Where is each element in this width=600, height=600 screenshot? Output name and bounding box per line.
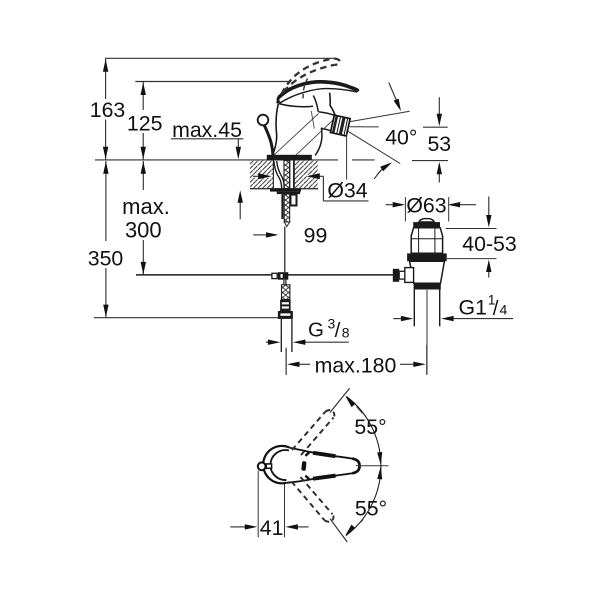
faucet centerline extension (285, 348, 287, 375)
dimension 125 vertical line (127, 82, 163, 160)
dimension 53 (412, 97, 451, 182)
55deg arc (346, 397, 381, 536)
handle rotation arc dashed (303, 79, 307, 100)
svg-text:53: 53 (427, 132, 451, 156)
dimension max.300 vertical line (122, 161, 170, 274)
faucet handle raised dashed (282, 59, 340, 94)
top view handle tick bottom (305, 476, 309, 480)
drain bottom ring (414, 283, 441, 289)
dimension diameter63 (386, 194, 476, 222)
svg-text:125: 125 (127, 112, 163, 136)
centerline double arrow (377, 452, 382, 479)
55deg upper boundary line (330, 388, 350, 412)
svg-text:163: 163 (90, 98, 126, 122)
label 55deg lower (355, 497, 387, 521)
label 40deg (385, 126, 417, 150)
reference line 350 bottom (94, 317, 278, 319)
top view handle groove top (313, 453, 336, 456)
faucet body contour lines (274, 111, 333, 160)
faucet spout outline (315, 112, 334, 156)
svg-text:max.45: max.45 (172, 118, 242, 142)
drain lever boss (405, 268, 414, 283)
drain centerline (426, 290, 428, 375)
drain lever knob (393, 269, 405, 282)
dimension max.45 (171, 118, 243, 220)
mounting bracket tab (291, 195, 297, 206)
deck extension line right (318, 159, 375, 161)
pop-up knob (258, 115, 273, 156)
svg-text:41: 41 (260, 516, 284, 540)
svg-text:Ø34: Ø34 (327, 178, 367, 202)
reference line top (105, 57, 336, 59)
svg-text:/: / (493, 297, 499, 320)
supply hose (281, 319, 292, 352)
deck slab hatched (250, 160, 318, 188)
svg-text:40°: 40° (385, 126, 417, 150)
drain upper body (411, 228, 442, 254)
dimension 99 arrow (253, 223, 327, 247)
threaded shank in hole (284, 161, 294, 189)
55deg lower arrow (345, 520, 363, 536)
svg-text:350: 350 (88, 246, 124, 270)
drain outlet tube (414, 290, 439, 327)
dimension G3/8 (266, 316, 350, 345)
top view dashed handle down (292, 477, 334, 522)
svg-text:max.: max. (122, 194, 170, 219)
label 55deg upper (354, 415, 386, 439)
horizontal linkage bar (136, 274, 393, 276)
drain lower body (410, 261, 445, 283)
leader ray lower 40deg (348, 131, 401, 164)
top view handle (286, 448, 359, 483)
dimension 40-53 (446, 197, 517, 278)
svg-text:8: 8 (342, 324, 350, 340)
faucet neck step (330, 93, 335, 115)
55deg upper arrow (345, 396, 362, 413)
svg-text:G1: G1 (459, 296, 487, 320)
top view body inner arc (270, 450, 289, 480)
faucet body right edge (313, 96, 318, 112)
dimension 40deg upper arrow (389, 83, 401, 112)
svg-text:/: / (335, 319, 341, 342)
top view pop-up knob (258, 462, 272, 470)
drain plug cap (413, 222, 440, 228)
drain flange (407, 253, 447, 261)
dimension G1 1/4 (393, 291, 513, 321)
linkage clamp (272, 272, 288, 280)
svg-text:300: 300 (125, 218, 162, 243)
svg-text:G: G (308, 319, 324, 342)
faucet lever handle (277, 81, 358, 104)
dimension max.180 (286, 345, 427, 377)
leader ray upper 40deg (349, 111, 409, 122)
deck top line (95, 159, 318, 161)
top view body outer arc (263, 446, 289, 483)
dimension 40deg lower arrow (374, 162, 392, 179)
washer and locknut under deck (270, 189, 301, 194)
drain plug knob (419, 219, 434, 222)
pop-up rod curve in hole (274, 161, 284, 189)
svg-text:max.180: max.180 (315, 353, 397, 377)
leader vertical to diameter34 (346, 134, 348, 180)
dimension 41 (230, 471, 308, 541)
dimension 163 vertical line (90, 58, 126, 159)
top view dashed handle up (292, 410, 334, 455)
svg-text:55°: 55° (354, 415, 386, 439)
dimension 350 vertical line (88, 161, 124, 317)
vertical rod to hose (284, 280, 286, 285)
top view handle slot (301, 461, 306, 471)
aerator (330, 115, 350, 136)
reference line 125 (135, 81, 290, 83)
top view handle groove bottom (313, 476, 336, 479)
svg-text:Ø63: Ø63 (406, 194, 446, 218)
connector block (280, 300, 291, 311)
faucet body dome (279, 104, 313, 107)
svg-text:55°: 55° (355, 497, 387, 521)
faucet body left edge (273, 104, 279, 156)
threaded shank below deck (283, 194, 290, 226)
faucet base plate (267, 155, 312, 161)
svg-text:4: 4 (500, 301, 508, 317)
svg-text:99: 99 (304, 223, 328, 247)
svg-text:40-53: 40-53 (462, 232, 516, 256)
compression nut (278, 311, 293, 319)
extension line aerator level (349, 126, 378, 128)
55deg lower boundary line (330, 519, 347, 542)
threaded adjuster (282, 285, 290, 300)
dimension diameter34 arrows (253, 173, 369, 202)
top view handle tick top (305, 452, 309, 456)
top view centerline (356, 465, 389, 467)
pop-up rod below deck (284, 227, 286, 273)
